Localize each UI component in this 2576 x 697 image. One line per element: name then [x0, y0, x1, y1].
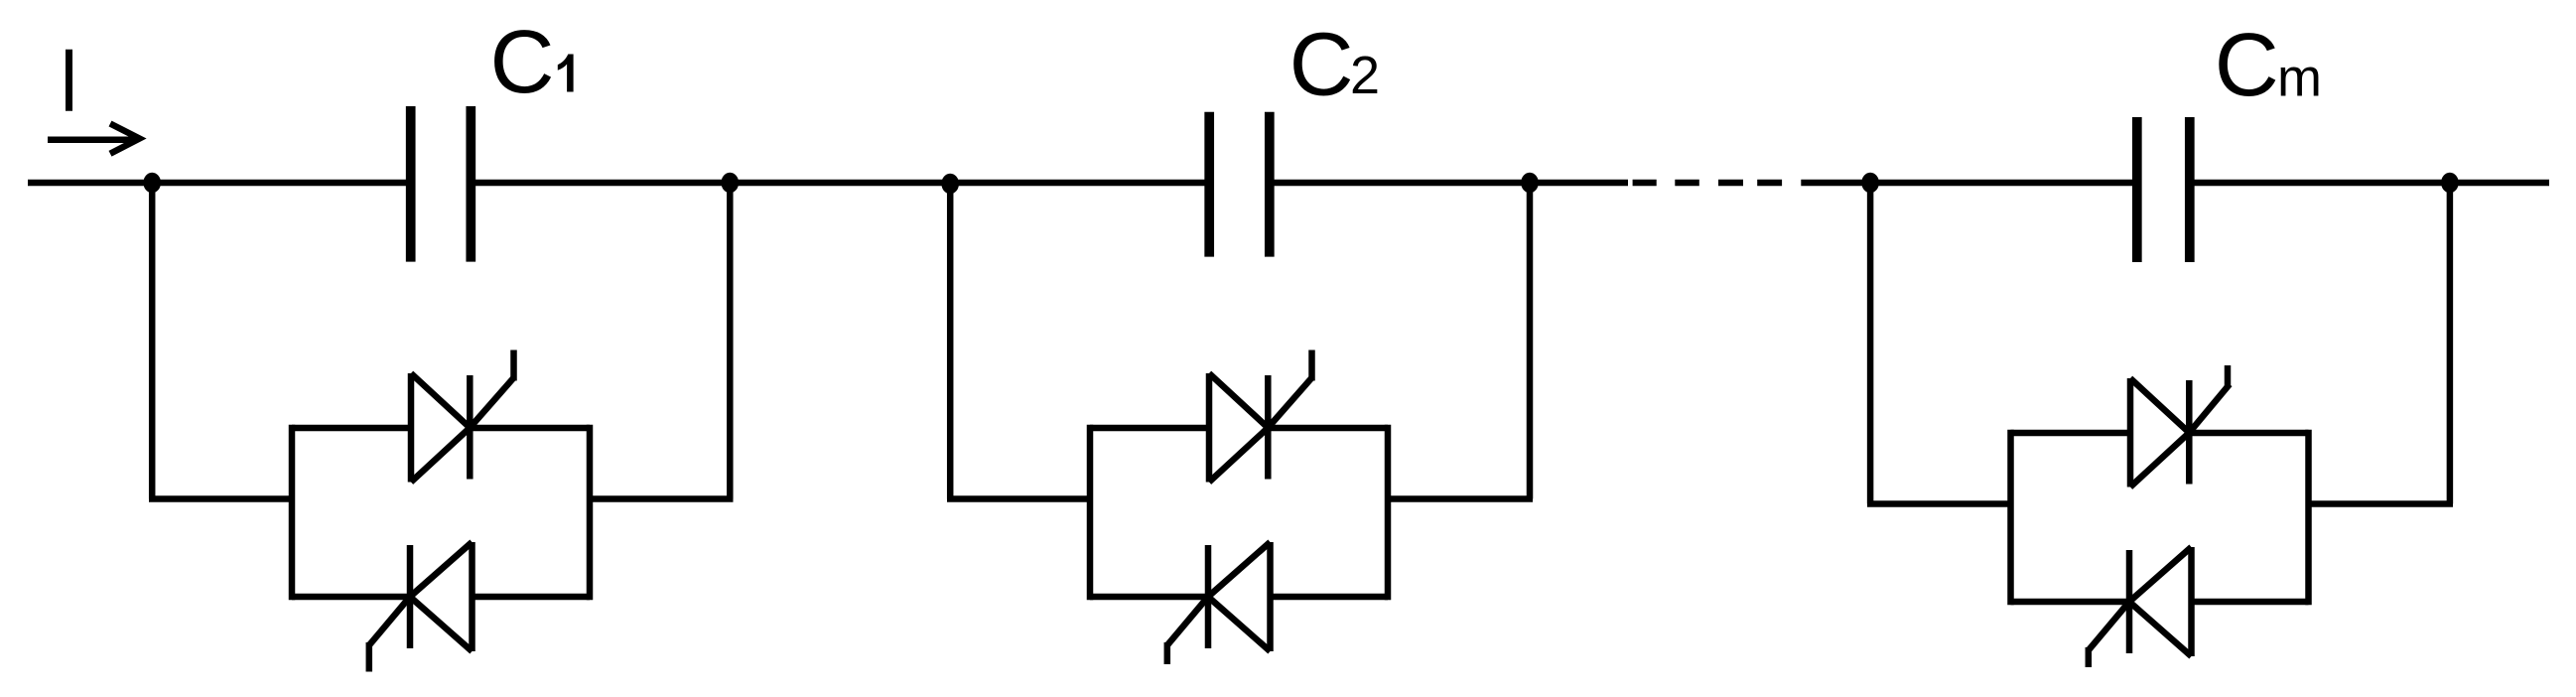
current arrow head: [110, 124, 140, 154]
node A (junction dot, C1 left): [143, 173, 161, 194]
wire: section2 left drop: [947, 183, 954, 499]
wire: section m box top-left segment: [2011, 430, 2131, 437]
wire: section1 right drop: [727, 183, 734, 499]
svg-text:m: m: [2277, 49, 2322, 108]
wire: dashed break to Cm left plate: [1801, 180, 2137, 187]
thyristor Tmb (lower, conducts right-to-left): [2129, 547, 2192, 656]
wire: section1 bypass box right edge: [587, 425, 594, 600]
wire: section1 bypass box left edge: [289, 425, 296, 600]
node E (junction dot, Cm left): [1861, 173, 1879, 194]
svg-text:C: C: [490, 13, 555, 112]
wire: section1 box top-right segment: [470, 425, 590, 432]
wire: section2 right drop: [1527, 183, 1534, 499]
wire: section m bypass box left edge: [2007, 430, 2014, 605]
wire: section2 right stub: [1388, 495, 1533, 502]
wire: section m box bottom-left segment: [2011, 599, 2130, 606]
wire: section2 box top-right segment: [1268, 425, 1388, 432]
wire: section2 left stub: [947, 495, 1090, 502]
thyristor T1b (lower, conducts right-to-left): [410, 542, 473, 651]
gate of Tma: [2189, 365, 2230, 433]
wire: section1 left drop: [149, 183, 156, 499]
wire: section2 bypass box right edge: [1385, 425, 1392, 600]
wire: section2 box bottom-left segment: [1090, 594, 1208, 601]
wire: section m left drop: [1867, 183, 1874, 504]
current arrow shaft: [48, 136, 135, 143]
capacitor C1: [411, 106, 472, 262]
gate of T2a: [1268, 350, 1311, 428]
wire: section m box bottom-right segment: [2192, 599, 2309, 606]
wire: section1 left stub: [149, 495, 292, 502]
wire: left lead into node A: [28, 180, 411, 187]
wire: section m box top-right segment: [2189, 430, 2308, 437]
wire: section m right drop: [2447, 183, 2454, 504]
wire: section1 box top-left segment: [292, 425, 411, 432]
capacitor C2: [1209, 112, 1270, 257]
wire: section1 box bottom-right segment: [473, 594, 591, 601]
wire: Cm right plate to right lead: [2190, 180, 2549, 187]
wire: section2 box top-left segment: [1090, 425, 1209, 432]
wire: section2 box bottom-right segment: [1271, 594, 1389, 601]
gate of T1a: [470, 350, 513, 428]
wire: dashed continuation (omitted stages): [1633, 180, 1783, 187]
thyristor Tma (upper, conducts left-to-right): [2130, 378, 2189, 488]
label I (current): [66, 50, 72, 111]
gate of T1b: [369, 597, 410, 672]
thyristor T2b (lower, conducts right-to-left): [1208, 542, 1271, 651]
wire: section1 box bottom-left segment: [292, 594, 410, 601]
svg-text:2: 2: [1350, 46, 1380, 105]
capacitor Cm: [2137, 117, 2190, 262]
svg-text:C: C: [1289, 16, 1354, 115]
wire: node B to C2 left plate: [471, 180, 1209, 187]
gate of Tmb: [2089, 602, 2129, 667]
wire: section m right stub: [2309, 500, 2454, 507]
thyristor T1a (upper, conducts left-to-right): [411, 373, 470, 483]
wire: section1 right stub: [590, 495, 734, 502]
node C (junction dot, C2 left): [941, 174, 959, 195]
label Cm: [2215, 16, 2322, 115]
label C2: [1289, 16, 1380, 115]
svg-text:C: C: [2215, 16, 2279, 115]
node F (junction dot, Cm right): [2441, 173, 2459, 194]
wire: section2 bypass box left edge: [1087, 425, 1094, 600]
wire: C2 right plate to dashed break: [1270, 180, 1628, 187]
label C1: [490, 13, 574, 112]
node D (junction dot, C2 right): [1521, 173, 1539, 194]
thyristor T2a (upper, conducts left-to-right): [1209, 373, 1268, 483]
node B (junction dot, C1 right): [722, 173, 740, 194]
wire: section m bypass box right edge: [2305, 430, 2312, 605]
wire: section m left stub: [1867, 500, 2011, 507]
gate of T2b: [1167, 597, 1208, 664]
